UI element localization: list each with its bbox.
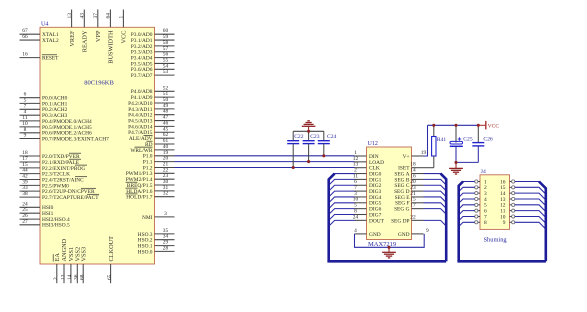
U12 pin 7 (DIG3) (354, 185, 381, 195)
svg-text:V+: V+ (403, 154, 410, 160)
wire VCC rail (428, 124, 479, 126)
J4 pin 10 (500, 214, 515, 220)
U4 pin 30 (BREQ/P1.5) (125, 179, 174, 189)
U4 pin 45 (P4.7/AD15) (128, 126, 174, 136)
svg-text:22: 22 (410, 214, 416, 220)
U12 pin 1 (DIN) (354, 150, 379, 160)
svg-text:9: 9 (24, 133, 27, 139)
U4 pin 64 (BUSWIDTH) (106, 10, 115, 64)
U12 pin 14 (SEG A) (394, 167, 423, 177)
wire net P1.2 to CLK (175, 167, 355, 169)
U4 pin 54 (P3.6/AD6) (131, 63, 175, 73)
U12 pin 15 (SEG F) (395, 197, 424, 207)
U12 pin 2 (DIG0) (354, 167, 381, 177)
U4 pin 50 (P4.2/AD10) (128, 97, 174, 107)
U4 pin 43 (READY) (80, 10, 89, 53)
U4 pin 38 (P2.7/T2CAPTURE/PACT) (20, 191, 100, 201)
wire J4 pin 16 to bus (515, 182, 546, 189)
svg-text:C25: C25 (463, 136, 473, 142)
U4 pin 24 (HSI0) (20, 201, 54, 211)
ground (inverted) above C23 (302, 121, 316, 127)
svg-text:3: 3 (164, 211, 167, 217)
U4 pin 34 (HSO.2) (138, 234, 175, 244)
U4 pin 57 (P3.3/AD3) (131, 46, 175, 56)
svg-text:12: 12 (60, 274, 66, 280)
svg-text:SEG G: SEG G (394, 207, 410, 213)
junction R41/VCC rail (432, 124, 435, 127)
U4 pin 60 (P3.0/AD0) (131, 28, 175, 38)
U4 pin 22 (PWM1/P1.3) (126, 167, 175, 177)
svg-text:80C196KB: 80C196KB (84, 80, 114, 87)
svg-text:READY: READY (82, 30, 89, 52)
U4 pin 15 (P2.2/EXINT/PROG) (20, 162, 88, 172)
ground below MAX7219 (382, 252, 396, 258)
svg-text:HSO.0: HSO.0 (138, 249, 153, 255)
U4 pin 8 (P0.6/PMODE.2/ACH6) (20, 127, 93, 137)
J4 pin 16 (500, 179, 515, 185)
U4 pin 28 (HSO.0) (138, 245, 175, 255)
capacitor C26 (472, 125, 493, 162)
J4 pin 3 (475, 191, 487, 197)
bus riser left of J4 (459, 182, 463, 262)
U4 pin 13 (VREF) (67, 10, 76, 47)
U12 pin 5 (DIG6) (354, 203, 381, 213)
svg-text:2: 2 (53, 277, 59, 280)
U4 pin 35 (HSO.3) (138, 228, 175, 238)
U4 pin 58 (P3.2/AD2) (131, 40, 175, 50)
svg-text:1: 1 (119, 16, 125, 19)
bus bottom rail (right) (457, 260, 546, 263)
junction C24/P1.0 (322, 154, 325, 157)
U4 pin 65 (CLKOUT) (107, 236, 115, 283)
svg-text:16: 16 (22, 52, 28, 58)
U4 pin 27 (HSI3/HSO.5) (20, 219, 71, 229)
U4 pin 2 (EA) (53, 253, 61, 284)
U4 pin 14 (VSS1) (67, 247, 75, 283)
U12 pin 21 (SEG E) (395, 191, 424, 201)
svg-text:XTAL2: XTAL2 (42, 38, 59, 44)
wire DIG7 to bus (329, 215, 355, 221)
U12 pin 19 (V+) (403, 150, 427, 160)
wire J4 pin 12 to bus (515, 205, 546, 212)
junction C25/ground link (454, 161, 457, 164)
U12 pin 22 (SEG DP) (391, 214, 423, 224)
J4 pin 5 (475, 203, 487, 209)
J4 pin 7 (475, 214, 487, 220)
svg-text:NMI: NMI (142, 215, 153, 221)
U12 pin 13 (CLK) (353, 162, 380, 172)
J4 pin 14 (500, 191, 515, 197)
wire J4 pin 8 to bus (459, 222, 475, 226)
U4 pin 53 (P3.7/AD7) (131, 69, 175, 79)
junction GND loop tap (387, 246, 390, 249)
wire J4 pin 6 to bus (459, 211, 475, 215)
J4 pin 12 (500, 203, 515, 209)
U12 pin 17 (SEG G) (394, 203, 423, 213)
svg-text:9: 9 (503, 220, 506, 226)
svg-text:C23: C23 (310, 134, 320, 140)
U12 pin 24 (DOUT) (353, 214, 385, 224)
junction C23/P1.1 (307, 160, 310, 163)
ground below C25/C26 (449, 168, 463, 174)
U4 pin 61 (RD) (145, 138, 175, 148)
wire V+ to VCC rail (424, 125, 428, 156)
U4 pin 1 (VCC) (119, 10, 128, 44)
svg-text:17: 17 (410, 203, 416, 209)
connector J4 body (480, 175, 510, 230)
wire C23 bottom lead (308, 144, 310, 162)
wire SEG DP to bus (424, 220, 447, 226)
wire DIG0 to bus (329, 174, 355, 180)
wire net P1.1 to LOAD (175, 161, 355, 163)
U4 pin 67 (XTAL1) (20, 28, 59, 38)
U4 pin 36 (VSS2) (74, 247, 82, 283)
wire SEG B to bus (424, 179, 447, 185)
U4 pin 33 (P2.6/T2UP-DN/CPVER) (20, 185, 97, 195)
wire J4 pin 13 to bus (515, 199, 546, 206)
svg-text:EA: EA (54, 253, 61, 262)
capacitor C23 (303, 134, 320, 144)
svg-text:43: 43 (80, 13, 86, 19)
J4 pin 9 (503, 220, 515, 226)
U12 pin 8 (DIG7) (354, 208, 381, 218)
U12 pin 9 (GND) (398, 228, 429, 238)
svg-text:38: 38 (22, 191, 28, 197)
U4 pin 12 (ANGND) (60, 238, 68, 283)
U4 pin 52 (P4.0/AD8) (131, 85, 175, 95)
wire SEG C to bus (424, 185, 447, 191)
U4 pin 59 (P3.1/AD1) (131, 34, 175, 44)
U4 pin 66 (XTAL2) (20, 34, 59, 44)
wire U12 GND loop (355, 234, 425, 247)
svg-text:VPP: VPP (95, 30, 102, 42)
wire J4 pin 7 to bus (459, 216, 475, 220)
U12 pin 12 (LOAD) (353, 156, 384, 166)
bus bottom rail (left) (327, 260, 446, 263)
svg-text:HOLD/P1.7: HOLD/P1.7 (126, 195, 153, 201)
svg-text:VCC: VCC (488, 124, 500, 130)
U4 pin 17 (P2.1/RXD/PALE) (20, 156, 82, 166)
svg-text:Shuming: Shuming (484, 237, 508, 244)
wire J4 pin 9 to bus (515, 222, 546, 229)
svg-text:BUSWIDTH: BUSWIDTH (108, 30, 115, 64)
junction C25/VCC rail (454, 124, 457, 127)
U12 pin 18 (ISET) (398, 162, 423, 172)
U12 pin 4 (GND) (354, 228, 381, 238)
U4 pin 42 (P2.4/T2RST/AINC) (20, 174, 88, 184)
U4 pin 18 (P2.0/TXD/PVER) (20, 150, 82, 160)
U4 pin 47 (P4.5/AD13) (128, 115, 174, 125)
svg-text:VSS3: VSS3 (80, 247, 87, 262)
J4 pin 15 (500, 185, 515, 191)
wire SEG D to bus (424, 191, 447, 197)
U4 pin 26 (HSI2/HSO.4) (20, 213, 71, 223)
wire SEG E to bus (424, 197, 447, 203)
U12 pin 20 (SEG C) (394, 179, 423, 189)
bus left riser (329, 174, 335, 262)
U4 pin 23 (PWM2/P1.4) (126, 173, 175, 183)
U4 pin 19 (P1.0) (143, 150, 175, 160)
wire J4 pin 2 to bus (459, 187, 475, 191)
junction ground/top rail (307, 130, 310, 133)
U12 pin 16 (SEG B) (394, 173, 423, 183)
wire C22/C23/C24 common top rail (293, 130, 324, 132)
J4 pin 1 (475, 179, 487, 185)
U4 pin 62 (ALE/ADV) (129, 132, 175, 142)
bus right riser (SEG) (441, 174, 447, 262)
svg-text:32: 32 (163, 191, 169, 197)
svg-text:HSI3/HSO.5: HSI3/HSO.5 (42, 223, 70, 229)
svg-text:4: 4 (354, 228, 357, 234)
wire DIG5 to bus (329, 203, 355, 209)
svg-text:24: 24 (353, 214, 359, 220)
U4 pin 31 (HLDA/P1.6) (125, 185, 174, 195)
U4 pin 5 (P0.1/ACH1) (20, 97, 68, 107)
svg-text:53: 53 (163, 69, 169, 75)
svg-text:68: 68 (80, 274, 86, 280)
svg-text:65: 65 (107, 274, 113, 280)
U4 pin 20 (P1.1) (143, 156, 175, 166)
J4 pin 8 (475, 220, 487, 226)
wire DIG6 to bus (329, 209, 355, 215)
power VCC (478, 121, 499, 130)
wire J4 pin 10 to bus (515, 216, 546, 223)
svg-text:C26: C26 (483, 136, 493, 142)
U12 pin 6 (DIG2) (354, 179, 381, 189)
wire ground stem (455, 162, 457, 168)
wire J4 pin 14 to bus (515, 193, 546, 200)
bus riser right of J4 (539, 182, 546, 262)
U4 pin 39 (P2.5/PWM0) (20, 179, 70, 189)
junction C22/P1.2 (292, 166, 295, 169)
wire C23 top lead (308, 131, 310, 140)
svg-text:9: 9 (426, 228, 429, 234)
U4 pin 25 (HSI1) (20, 207, 54, 217)
svg-text:C22: C22 (294, 134, 304, 140)
U4 pin 48 (P4.4/AD12) (128, 109, 174, 119)
U12 pin 23 (SEG D) (394, 185, 423, 195)
U4 pin 16 (RESET) (20, 52, 60, 62)
U4 pin 49 (P4.3/AD11) (128, 103, 174, 113)
svg-text:P2.7/T2CAPTURE/PACT: P2.7/T2CAPTURE/PACT (42, 195, 99, 201)
svg-text:14: 14 (67, 274, 73, 280)
svg-text:U12: U12 (368, 141, 378, 147)
svg-text:64: 64 (106, 13, 112, 19)
svg-text:VREF: VREF (69, 30, 76, 47)
wire C25/C26 ground link (456, 161, 478, 163)
wire DIG2 to bus (329, 185, 355, 191)
U4 pin 7 (P0.2/ACH2) (20, 103, 68, 113)
wire J4 pin 4 to bus (459, 199, 475, 203)
wire ground stem (388, 247, 390, 252)
wire J4 pin 11 to bus (515, 211, 546, 218)
U4 pin 32 (HOLD/P1.7) (125, 191, 174, 201)
wire C22 bottom lead (292, 144, 294, 168)
svg-text:GND: GND (369, 232, 381, 238)
U4 pin 11 (P0.4/PMODE.0/ACH4) (20, 115, 93, 125)
U4 pin 68 (VSS3) (80, 247, 88, 283)
U12 pin 10 (DIG5) (353, 197, 382, 207)
wire J4 pin 3 to bus (459, 193, 475, 197)
svg-text:37: 37 (93, 13, 99, 19)
capacitor C24 (318, 134, 337, 144)
wire J4 pin 1 to bus (459, 182, 475, 186)
svg-text:U4: U4 (41, 21, 48, 27)
J4 pin 4 (475, 197, 487, 203)
U4 pin 3 (NMI) (142, 211, 174, 221)
U4 pin 6 (P0.0/ACH0) (20, 92, 68, 102)
svg-text:13: 13 (67, 13, 73, 19)
svg-text:8: 8 (484, 220, 487, 226)
wire C22 top lead (292, 131, 294, 140)
wire C24 bottom lead (323, 144, 325, 156)
wire DIG1 to bus (329, 179, 355, 185)
U4 pin 29 (HSO.1) (138, 240, 175, 250)
svg-text:P0.7/PMODE.3/EXINT.ACH7: P0.7/PMODE.3/EXINT.ACH7 (42, 136, 109, 142)
capacitor C22 (287, 134, 304, 144)
U4 pin 55 (P3.5/AD5) (131, 57, 175, 67)
U4 pin 44 (P2.3/T2CLK) (20, 168, 71, 178)
svg-text:66: 66 (22, 34, 28, 40)
U12 pin 3 (DIG4) (354, 191, 381, 201)
svg-text:SEG DP: SEG DP (391, 218, 409, 224)
U4 pin 21 (P1.2) (143, 162, 175, 172)
svg-text:28: 28 (163, 245, 169, 251)
wire SEG G to bus (424, 209, 447, 215)
svg-text:VCC: VCC (121, 31, 128, 44)
wire SEG A to bus (424, 174, 447, 180)
wire DOUT to bus (329, 220, 355, 226)
svg-text:C24: C24 (327, 134, 337, 140)
U4 pin 46 (P4.6/AD14) (128, 120, 174, 130)
U4 pin 10 (P0.5/PMODE.1/ACH5) (20, 121, 93, 131)
U4 pin 40 (WRL/WR) (130, 144, 174, 154)
wire SEG F to bus (424, 203, 447, 209)
U12 pin 11 (DIG1) (353, 173, 382, 183)
wire DIG3 to bus (329, 191, 355, 197)
op-amp U12 body (MAX7219 display driver) (367, 147, 412, 240)
svg-text:J4: J4 (481, 169, 486, 175)
U4 pin 9 (P0.7/PMODE.3/EXINT.ACH7) (20, 133, 110, 143)
capacitor C25 (450, 125, 473, 162)
svg-text:RESET: RESET (42, 56, 59, 62)
wire ground stem (308, 126, 310, 131)
U4 pin 56 (P3.4/AD4) (131, 52, 175, 62)
svg-text:CLKOUT: CLKOUT (108, 236, 115, 262)
wire DIG4 to bus (329, 197, 355, 203)
wire net P1.0 to DIN (175, 155, 355, 157)
junction C26/VCC rail (477, 124, 480, 127)
svg-text:27: 27 (22, 219, 28, 225)
op-amp U4 body (80C196KB microcontroller) (40, 27, 155, 264)
J4 pin 11 (500, 209, 515, 215)
J4 pin 2 (475, 185, 487, 191)
svg-text:DOUT: DOUT (369, 218, 385, 224)
J4 pin 13 (500, 197, 515, 203)
wire C24 top lead (323, 131, 325, 140)
svg-text:19: 19 (421, 150, 427, 156)
wire J4 pin 5 to bus (459, 205, 475, 209)
U4 pin 4 (P0.3/ACH3) (20, 109, 68, 119)
resistor R41 (424, 125, 447, 167)
svg-text:R41: R41 (437, 137, 447, 143)
J4 pin 6 (475, 209, 487, 215)
wire J4 pin 15 to bus (515, 187, 546, 194)
U4 pin 37 (VPP) (93, 10, 102, 43)
svg-text:P3.7/AD7: P3.7/AD7 (131, 73, 153, 79)
U4 pin 51 (P4.1/AD9) (131, 91, 175, 101)
svg-text:GND: GND (398, 232, 410, 238)
